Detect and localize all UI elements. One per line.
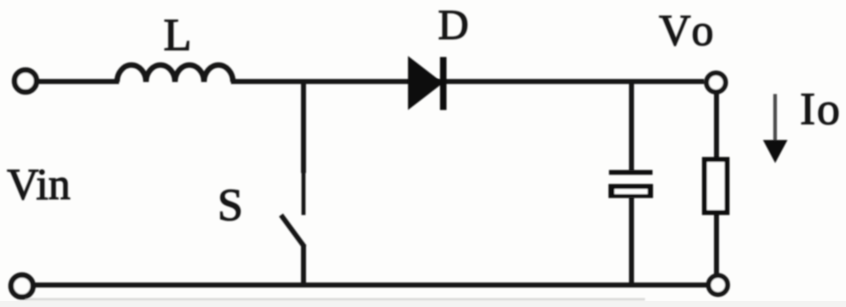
terminal output top Vo [707, 73, 726, 92]
current Io arrow shaft [773, 94, 777, 142]
capacitor branch upper wire [629, 81, 634, 171]
svg-text:Vin: Vin [7, 160, 70, 209]
svg-text:o: o [692, 6, 714, 55]
jpeg ghost band at bottom [25, 298, 645, 301]
diode D triangle [408, 56, 443, 110]
terminal input top [15, 70, 37, 92]
inductor L [117, 65, 233, 82]
svg-text:Io: Io [800, 83, 841, 134]
svg-text:S: S [218, 179, 244, 230]
svg-text:D: D [438, 2, 469, 49]
resistor lower wire [714, 213, 719, 277]
terminal input bottom [11, 275, 33, 297]
wire top middle segment [231, 79, 704, 84]
svg-text:V: V [659, 6, 691, 55]
wire top left segment [36, 79, 119, 84]
resistor load body [705, 160, 728, 213]
terminal output bottom [709, 276, 728, 295]
switch S blade [281, 215, 305, 247]
switch S upper contact wire [301, 79, 306, 173]
diode D cathode bar [440, 57, 447, 110]
wire bottom [34, 283, 707, 288]
current Io arrow head [763, 140, 788, 163]
resistor upper wire [714, 91, 719, 160]
capacitor bottom plate (boxed) [609, 184, 654, 198]
svg-text:L: L [164, 9, 192, 60]
capacitor lower wire [629, 197, 634, 287]
capacitor top plate [609, 170, 653, 175]
switch S lower wire [301, 245, 306, 287]
